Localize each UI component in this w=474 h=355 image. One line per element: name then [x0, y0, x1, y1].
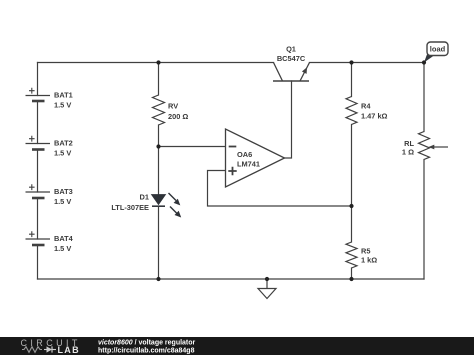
node R5 bottom [349, 277, 353, 281]
svg-text:BAT1: BAT1 [54, 90, 73, 99]
node junction dots [156, 60, 426, 281]
svg-text:1 kΩ: 1 kΩ [361, 256, 377, 265]
node load flag [424, 42, 448, 63]
wire between BAT2 and BAT3 [37, 150, 39, 193]
svg-text:BAT2: BAT2 [54, 138, 73, 147]
svg-text:http://circuitlab.com/c8a84g8: http://circuitlab.com/c8a84g8 [98, 348, 195, 355]
battery BAT4 [26, 231, 74, 253]
svg-text:BAT3: BAT3 [54, 187, 73, 196]
svg-text:LTL-307EE: LTL-307EE [111, 203, 149, 212]
wire right bus bottom [423, 160, 425, 280]
svg-text:200 Ω: 200 Ω [168, 112, 188, 121]
svg-text:RV: RV [168, 102, 178, 111]
wire RV bottom to LED [158, 125, 160, 195]
wire RV top stub [158, 63, 160, 96]
logo diode [44, 349, 47, 351]
wire between BAT3 and BAT4 [37, 198, 39, 239]
svg-text:load: load [430, 45, 446, 54]
svg-text:BC547C: BC547C [277, 54, 306, 63]
wire bottom rail [38, 278, 425, 280]
battery BAT3 [26, 184, 73, 206]
node RV bottom tap [156, 144, 160, 148]
resistor RL rheostat [402, 132, 448, 160]
resistor RV [153, 95, 189, 125]
svg-text:LM741: LM741 [237, 160, 260, 169]
node LED bottom [156, 277, 160, 281]
node RV top [156, 60, 160, 64]
wire between BAT1 and BAT2 [37, 101, 39, 144]
wire R5 top [351, 206, 353, 242]
svg-text:1.5 V: 1.5 V [54, 101, 71, 110]
wire opamp minus input [159, 146, 226, 148]
svg-text:1.5 V: 1.5 V [54, 149, 71, 158]
svg-text:D1: D1 [140, 193, 149, 202]
battery BAT1 [26, 88, 73, 110]
svg-text:LAB: LAB [58, 345, 80, 355]
wire LED cathode down [158, 206, 160, 279]
svg-text:victor8600 / voltage regulator: victor8600 / voltage regulator [98, 340, 196, 347]
svg-text:1.47 kΩ: 1.47 kΩ [361, 112, 388, 121]
node R4 top [349, 60, 353, 64]
footer bar [0, 337, 474, 355]
wire right bus top [423, 63, 425, 132]
wire left bus top [37, 63, 39, 96]
wire R4 bottom [351, 125, 353, 207]
wire top rail right [310, 62, 425, 64]
node ground tap [265, 277, 269, 281]
svg-text:BAT4: BAT4 [54, 234, 74, 243]
logo resistor squiggle [22, 347, 42, 353]
wire R4 top stub [351, 63, 353, 97]
svg-text:R5: R5 [361, 247, 370, 256]
node feedback R4 R5 [349, 204, 353, 208]
diode D1 LED [111, 193, 181, 218]
node load corner [422, 60, 426, 64]
wire opamp output to Q1 base [285, 81, 292, 158]
svg-text:1.5 V: 1.5 V [54, 244, 71, 253]
battery BAT2 [26, 136, 73, 158]
resistor R5 [346, 242, 377, 268]
svg-text:R4: R4 [361, 102, 371, 111]
wire top rail left [38, 62, 274, 64]
svg-text:Q1: Q1 [286, 45, 296, 54]
resistor R4 [346, 97, 388, 125]
svg-text:1.5 V: 1.5 V [54, 197, 71, 206]
transistor Q1 [273, 45, 310, 82]
op-amp OA6 [226, 129, 285, 187]
svg-text:1 Ω: 1 Ω [402, 148, 414, 157]
wire R5 bottom stub [351, 268, 353, 279]
ground [258, 279, 276, 299]
wire opamp plus input feedback [208, 171, 352, 207]
wire left bus bottom [37, 245, 39, 279]
svg-text:OA6: OA6 [237, 150, 252, 159]
